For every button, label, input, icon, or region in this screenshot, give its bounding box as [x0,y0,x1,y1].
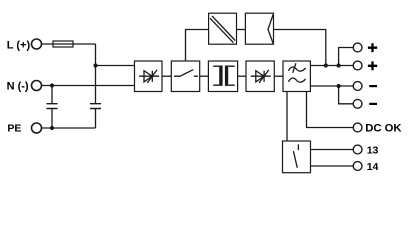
capacitor C1 [47,86,58,129]
junction N cap [50,83,54,87]
capacitor C2 [90,104,101,128]
wire contact 13 [311,149,354,151]
label plus 1 [368,43,377,52]
wire plus branch up [339,48,354,66]
junction minus branch [337,84,341,88]
wire converter to limiter [237,29,246,31]
wire L vertical down [95,44,97,104]
terminal 13 [353,145,362,154]
terminal L [32,39,42,49]
wire rectifier to switch [162,75,171,77]
wire plus output [310,65,353,67]
wire diode to filter [274,75,283,77]
block DC/DC converter [209,13,237,44]
block rectifier [135,61,163,92]
wire switch to transformer [200,75,209,77]
block output diode [246,61,274,92]
wire L to fuse [42,43,96,45]
svg-text:14: 14 [367,161,379,173]
terminal DC OK [353,123,362,132]
terminal plus 1 [353,43,362,52]
junction plus branch [337,63,341,67]
svg-text:DC OK: DC OK [365,122,402,134]
terminal minus 1 [353,82,362,91]
wire DC OK [307,92,354,128]
label minus 2 [369,103,377,105]
wire transformer to diode [238,75,246,77]
wire L branch to rectifier [96,65,135,67]
wire PE [42,127,96,129]
wire contact 14 [311,165,354,167]
junction PE cap [50,126,54,130]
wire minus output [310,85,353,87]
wire N to rectifier [42,85,135,87]
block switching stage [171,61,199,92]
label minus 1 [369,85,377,87]
svg-text:13: 13 [367,144,379,156]
wire limiter to plus rail [274,30,326,66]
terminal minus 2 [353,99,362,108]
block transformer [208,61,237,92]
junction L branch [93,63,97,67]
junction rail plus [324,63,328,67]
svg-text:N (-): N (-) [7,80,29,92]
fuse F1 [53,41,73,47]
svg-text:PE: PE [7,122,21,134]
terminal plus 2 [353,61,362,70]
wire switch top to control rail [186,30,209,62]
terminal PE [32,123,42,133]
block output filter [283,61,310,92]
svg-text:L (+): L (+) [7,39,31,51]
block limiter [245,13,273,44]
label plus 2 [368,61,377,70]
block relay contact [283,141,311,173]
wire minus branch down [339,86,354,104]
wire relay feed [286,92,288,142]
terminal N [32,81,42,91]
terminal 14 [353,162,362,171]
